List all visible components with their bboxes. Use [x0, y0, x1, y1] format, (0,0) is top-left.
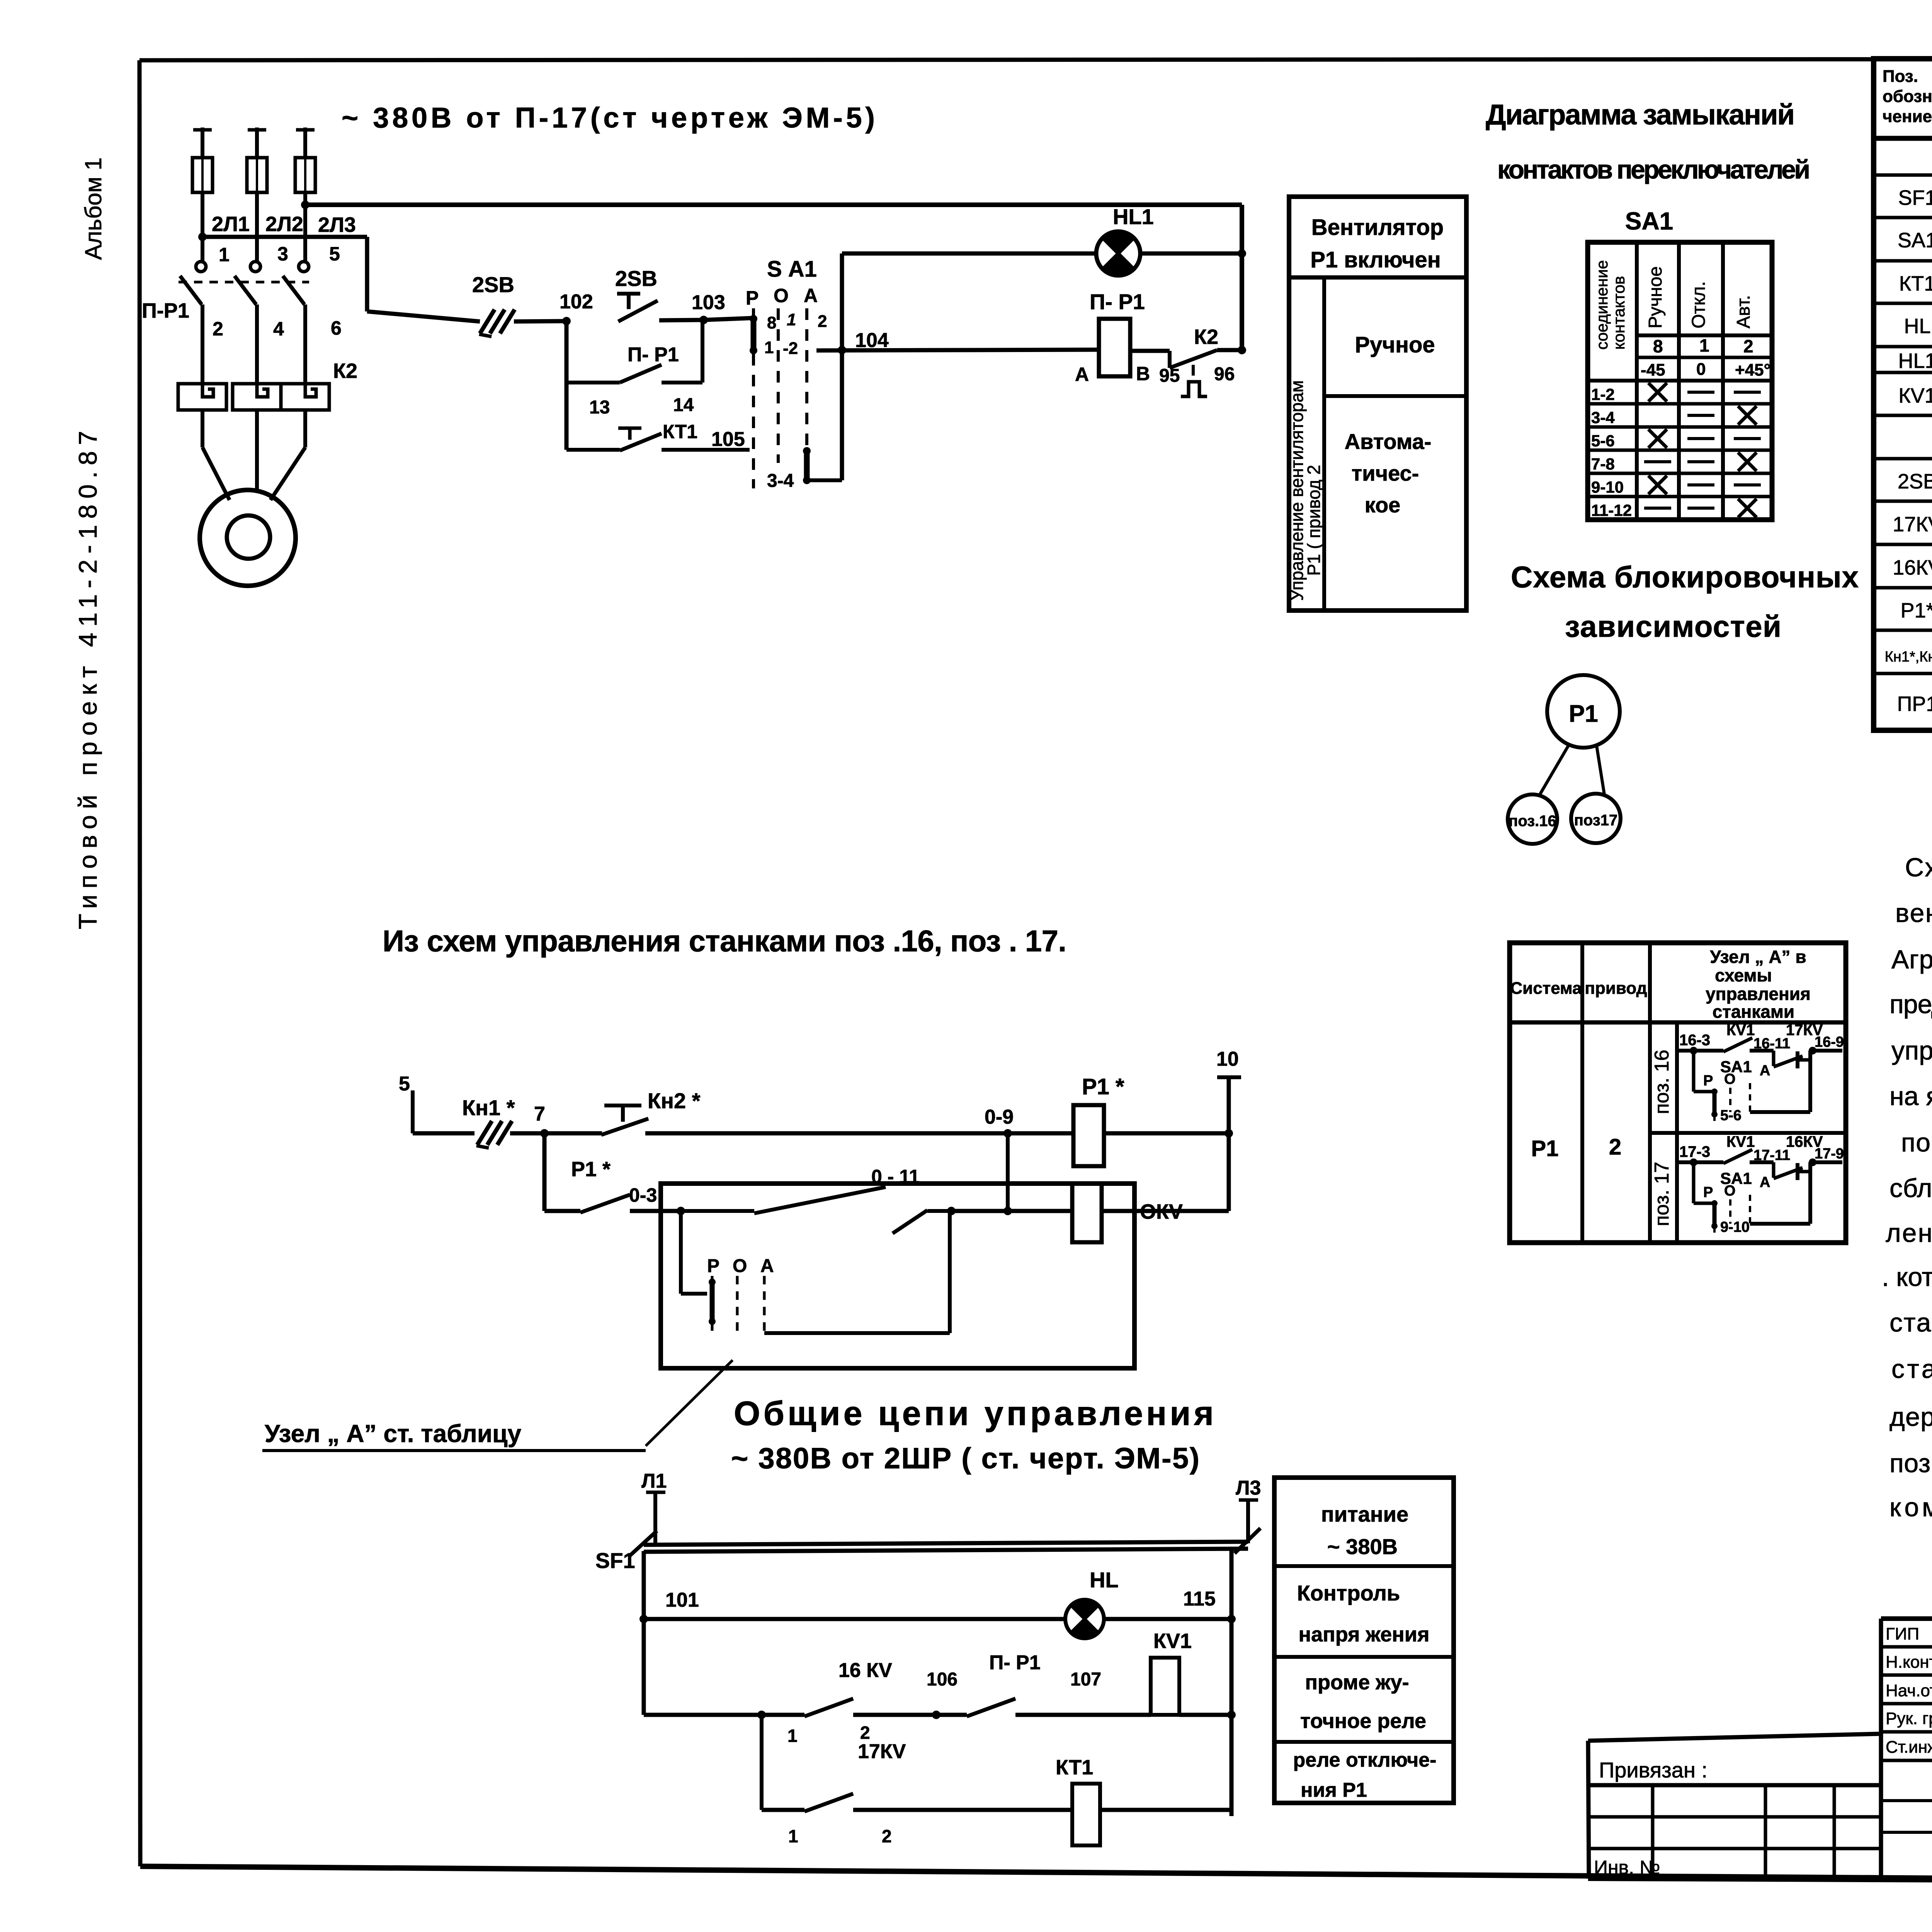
svg-text:Р1 *: Р1 *: [571, 1158, 611, 1181]
svg-text:обозна-: обозна-: [1883, 87, 1932, 106]
svg-text:1: 1: [764, 338, 774, 357]
svg-text:Диаграмма замыканий: Диаграмма замыканий: [1486, 99, 1795, 131]
svg-text:поз. 16: поз. 16: [1651, 1049, 1673, 1114]
svg-text:станка реле КТ1 теряет: станка реле КТ1 теряет питание и вентиля…: [1891, 1354, 1932, 1384]
svg-text:115: 115: [1183, 1588, 1216, 1610]
svg-text:Р: Р: [1703, 1184, 1713, 1201]
svg-text:Р1 ( привод 2: Р1 ( привод 2: [1304, 465, 1324, 576]
svg-text:Л3: Л3: [1236, 1477, 1261, 1499]
svg-text:5-6: 5-6: [1720, 1107, 1742, 1124]
svg-text:Ст.инж .: Ст.инж .: [1886, 1738, 1932, 1757]
svg-text:Р: Р: [707, 1256, 719, 1276]
svg-text:16-3: 16-3: [1679, 1032, 1710, 1049]
svg-text:комплектно на станке .: комплектно на станке .: [1889, 1493, 1932, 1522]
svg-text:Общие цепи управления: Общие цепи управления: [734, 1394, 1214, 1432]
svg-text:Кн1*,Кн2*: Кн1*,Кн2*: [1885, 649, 1932, 665]
svg-text:-45: -45: [1641, 361, 1665, 379]
svg-text:2Л1: 2Л1: [212, 213, 250, 236]
svg-text:на ящике 2Я. Ручное управле: на ящике 2Я. Ручное управление при помощ…: [1889, 1082, 1932, 1111]
svg-text:Нач.отд: Нач.отд: [1886, 1681, 1932, 1700]
svg-text:2Л3: 2Л3: [318, 213, 356, 236]
svg-text:ГИП: ГИП: [1886, 1624, 1919, 1643]
svg-text:105: 105: [711, 428, 745, 451]
svg-text:Ручное: Ручное: [1645, 266, 1666, 328]
svg-text:HL1: HL1: [1113, 204, 1154, 229]
svg-text:Откл.: Откл.: [1689, 281, 1709, 328]
svg-text:вентилятором Р1, сблокирован: вентилятором Р1, сблокированным со станк…: [1895, 898, 1932, 928]
svg-text:привод: привод: [1585, 979, 1647, 998]
svg-text:106: 106: [927, 1669, 957, 1690]
svg-text:SF1: SF1: [1898, 186, 1932, 209]
svg-text:8: 8: [767, 313, 776, 332]
svg-text:2Л2: 2Л2: [265, 213, 303, 236]
svg-text:Р: Р: [746, 287, 759, 309]
svg-text:Схемой предусмотре но ручно: Схемой предусмотре но ручное и автоматич…: [1905, 853, 1932, 882]
svg-text:7: 7: [534, 1103, 545, 1125]
svg-text:17КV: 17КV: [1893, 513, 1932, 536]
svg-text:Автома-: Автома-: [1345, 429, 1432, 454]
svg-text:станка, пока вентилятор вкл: станка, пока вентилятор включен. При отк…: [1889, 1308, 1932, 1337]
svg-text:Р1: Р1: [1531, 1136, 1559, 1161]
svg-text:ленный у станка, включает рел: ленный у станка, включает реле КТ1 , зам…: [1886, 1218, 1932, 1248]
svg-text:А: А: [1075, 364, 1089, 385]
svg-text:HL: HL: [1904, 315, 1930, 338]
svg-text:А: А: [760, 1256, 774, 1276]
svg-text:позиции, знаком * отмечена а: позиции, знаком * отмечена аппаратура по…: [1889, 1449, 1932, 1478]
svg-text:Кн2 *: Кн2 *: [648, 1088, 701, 1113]
svg-text:О: О: [774, 285, 789, 306]
svg-text:контактов переключателей: контактов переключателей: [1497, 155, 1810, 184]
svg-text:кое: кое: [1365, 493, 1401, 517]
svg-text:2SB: 2SB: [615, 266, 657, 291]
svg-text:схемы: схемы: [1715, 965, 1772, 985]
svg-text:Р1 включен: Р1 включен: [1310, 247, 1441, 272]
svg-text:П- Р1: П- Р1: [1090, 289, 1145, 314]
svg-text:107: 107: [1070, 1669, 1101, 1690]
svg-text:реле отключе-: реле отключе-: [1293, 1749, 1437, 1771]
svg-text:КТ1: КТ1: [1899, 272, 1932, 295]
svg-text:К2: К2: [333, 359, 357, 383]
svg-text:17-9: 17-9: [1815, 1146, 1844, 1162]
svg-text:HL1: HL1: [1898, 349, 1932, 372]
svg-text:управления: управления: [1706, 984, 1811, 1004]
svg-text:О: О: [733, 1256, 747, 1276]
svg-text:SF1: SF1: [595, 1548, 635, 1573]
svg-text:11-12: 11-12: [1591, 501, 1632, 519]
svg-text:3-4: 3-4: [767, 471, 794, 491]
svg-text:0 - 11: 0 - 11: [871, 1166, 920, 1187]
svg-text:ния Р1: ния Р1: [1301, 1779, 1367, 1801]
svg-text:Кн1 *: Кн1 *: [462, 1095, 515, 1120]
svg-text:S А1: S А1: [767, 257, 817, 282]
svg-text:А: А: [1760, 1174, 1770, 1190]
svg-text:КТ1: КТ1: [663, 421, 697, 442]
svg-text:16-9: 16-9: [1815, 1034, 1844, 1050]
svg-text:5-6: 5-6: [1591, 432, 1615, 450]
svg-text:1: 1: [787, 310, 796, 329]
svg-text:О: О: [1724, 1183, 1736, 1199]
svg-text:Из схем управления станкам: Из схем управления станками поз .16, поз…: [383, 924, 1066, 958]
svg-text:КТ1: КТ1: [1056, 1756, 1093, 1779]
svg-text:управления осуществляется пе: управления осуществляется переключателем…: [1891, 1036, 1932, 1065]
svg-text:8: 8: [1653, 336, 1663, 356]
svg-text:1: 1: [788, 1826, 798, 1846]
svg-text:Типовой проект 411-2-180.: Типовой проект 411-2-180.87: [73, 431, 102, 929]
svg-text:2SB: 2SB: [1898, 470, 1932, 493]
svg-text:16-11: 16-11: [1753, 1036, 1790, 1052]
svg-text:13: 13: [589, 397, 610, 418]
svg-text:SА1: SА1: [1625, 207, 1673, 235]
svg-text:КV1: КV1: [1153, 1629, 1192, 1653]
svg-text:104: 104: [855, 329, 889, 352]
svg-text:0-9: 0-9: [985, 1106, 1014, 1128]
svg-text:Узел „ А” в: Узел „ А” в: [1710, 947, 1806, 967]
svg-text:96: 96: [1214, 364, 1235, 384]
svg-text:П- Р1: П- Р1: [628, 344, 679, 366]
svg-text:Узел „ А” ст. таблицу: Узел „ А” ст. таблицу: [265, 1420, 522, 1447]
svg-text:2: 2: [1743, 336, 1753, 356]
svg-text:17КV: 17КV: [858, 1740, 906, 1763]
svg-text:Контроль: Контроль: [1297, 1581, 1400, 1605]
svg-text:101: 101: [665, 1589, 699, 1611]
svg-text:Привязан :: Привязан :: [1599, 1758, 1708, 1782]
svg-text:Р1: Р1: [1569, 701, 1598, 727]
svg-text:3-4: 3-4: [1591, 408, 1615, 427]
svg-text:КV1: КV1: [1898, 384, 1932, 407]
svg-text:5: 5: [399, 1073, 410, 1095]
svg-text:1-2: 1-2: [1591, 385, 1615, 403]
svg-text:102: 102: [560, 291, 593, 313]
svg-text:0-3: 0-3: [629, 1184, 657, 1206]
svg-text:Поз.: Поз.: [1883, 67, 1918, 86]
svg-text:по месту. Автоматическое- п: по месту. Автоматическое- при на жатии к…: [1901, 1128, 1932, 1157]
svg-text:3: 3: [277, 243, 288, 265]
svg-text:напря жения: напря жения: [1299, 1623, 1430, 1646]
svg-text:проме жу-: проме жу-: [1305, 1671, 1409, 1694]
svg-text:9-10: 9-10: [1591, 478, 1624, 496]
svg-text:5: 5: [329, 243, 340, 265]
svg-text:4: 4: [273, 318, 284, 340]
svg-text:Ручное: Ручное: [1355, 332, 1435, 357]
svg-text:Л1: Л1: [641, 1470, 667, 1492]
svg-text:А: А: [1760, 1063, 1770, 1079]
svg-text:Инв. №: Инв. №: [1594, 1857, 1660, 1878]
svg-text:2SB: 2SB: [472, 272, 514, 297]
svg-text:. которого включается вентил: . которого включается вентилятор, подает…: [1882, 1262, 1932, 1292]
svg-text:поз. 17: поз. 17: [1651, 1162, 1673, 1226]
svg-text:соединение: соединение: [1593, 260, 1611, 350]
svg-text:HL: HL: [1090, 1568, 1119, 1592]
svg-text:П-Р1: П-Р1: [142, 299, 189, 322]
svg-text:Агрегат Р1 мо жет работать тол: Агрегат Р1 мо жет работать только с одни…: [1891, 945, 1932, 974]
svg-text:Рук. гр.: Рук. гр.: [1886, 1709, 1932, 1728]
svg-text:К2: К2: [1194, 325, 1218, 349]
svg-text:-2: -2: [783, 339, 798, 358]
svg-text:поз.16: поз.16: [1509, 813, 1556, 830]
svg-text:103: 103: [692, 291, 725, 314]
svg-text:предусмотрена блокировка стан: предусмотрена блокировка станков поз . 1…: [1889, 990, 1932, 1019]
svg-text:6: 6: [331, 317, 342, 339]
svg-text:точное реле: точное реле: [1300, 1709, 1426, 1733]
svg-text:КV1: КV1: [1726, 1022, 1755, 1039]
svg-text:~ 380В от П-17(ст чертеж ЭМ: ~ 380В от П-17(ст чертеж ЭМ-5): [342, 102, 875, 134]
svg-text:SА1: SА1: [1898, 229, 1932, 252]
svg-text:Р: Р: [1703, 1073, 1713, 1089]
svg-text:1: 1: [1699, 335, 1709, 355]
svg-text:ПР1: ПР1: [1897, 692, 1932, 716]
svg-text:Альбом 1: Альбом 1: [80, 157, 106, 260]
svg-text:17-11: 17-11: [1753, 1147, 1790, 1163]
svg-text:сблокированного с системой,: сблокированного с системой, срабатывает …: [1889, 1173, 1932, 1203]
svg-text:~ 380В от 2ШР ( ст. черт: ~ 380В от 2ШР ( ст. черт. ЭМ-5): [731, 1442, 1199, 1475]
svg-text:9-10: 9-10: [1720, 1219, 1750, 1235]
svg-text:~ 380В: ~ 380В: [1327, 1534, 1398, 1559]
svg-text:Р1 *: Р1 *: [1082, 1074, 1124, 1099]
svg-text:+45°: +45°: [1735, 361, 1770, 379]
svg-text:Система: Система: [1510, 979, 1582, 998]
svg-text:Вентилятор: Вентилятор: [1311, 215, 1444, 240]
svg-text:7-8: 7-8: [1591, 455, 1615, 473]
svg-text:10: 10: [1216, 1048, 1239, 1070]
svg-text:О: О: [1724, 1071, 1736, 1087]
svg-text:16КV: 16КV: [1893, 556, 1932, 579]
svg-text:чение: чение: [1883, 107, 1932, 126]
svg-text:2: 2: [882, 1826, 892, 1846]
svg-text:А: А: [804, 285, 818, 306]
svg-text:16 КV: 16 КV: [838, 1659, 892, 1682]
svg-text:КV1: КV1: [1726, 1133, 1755, 1150]
svg-text:питание: питание: [1321, 1502, 1408, 1526]
svg-text:14: 14: [673, 395, 694, 415]
svg-text:2: 2: [213, 318, 223, 340]
svg-text:тичес-: тичес-: [1352, 461, 1419, 485]
svg-text:95: 95: [1159, 366, 1180, 386]
svg-text:поз17: поз17: [1574, 812, 1617, 829]
svg-text:1: 1: [219, 244, 230, 265]
svg-text:П- Р1: П- Р1: [989, 1651, 1041, 1674]
svg-text:контактов: контактов: [1610, 276, 1628, 350]
svg-text:1: 1: [787, 1726, 798, 1746]
svg-text:ОКV: ОКV: [1140, 1200, 1183, 1223]
svg-text:17-3: 17-3: [1679, 1143, 1710, 1160]
svg-text:Схема блокировочных: Схема блокировочных: [1511, 560, 1859, 594]
svg-text:2: 2: [860, 1723, 870, 1743]
svg-text:0: 0: [1696, 360, 1706, 379]
svg-text:Н.контр.: Н.контр.: [1886, 1653, 1932, 1672]
svg-text:2: 2: [1609, 1134, 1621, 1160]
svg-text:зависимостей: зависимостей: [1565, 609, 1781, 643]
svg-text:Авт.: Авт.: [1733, 295, 1754, 328]
svg-text:станками: станками: [1713, 1002, 1794, 1022]
svg-text:держкой времени отключается: держкой времени отключается . Знак „ ▯ с…: [1889, 1402, 1932, 1432]
svg-text:2: 2: [818, 312, 827, 331]
svg-text:В: В: [1136, 363, 1150, 384]
svg-text:Р1*: Р1*: [1900, 599, 1932, 622]
